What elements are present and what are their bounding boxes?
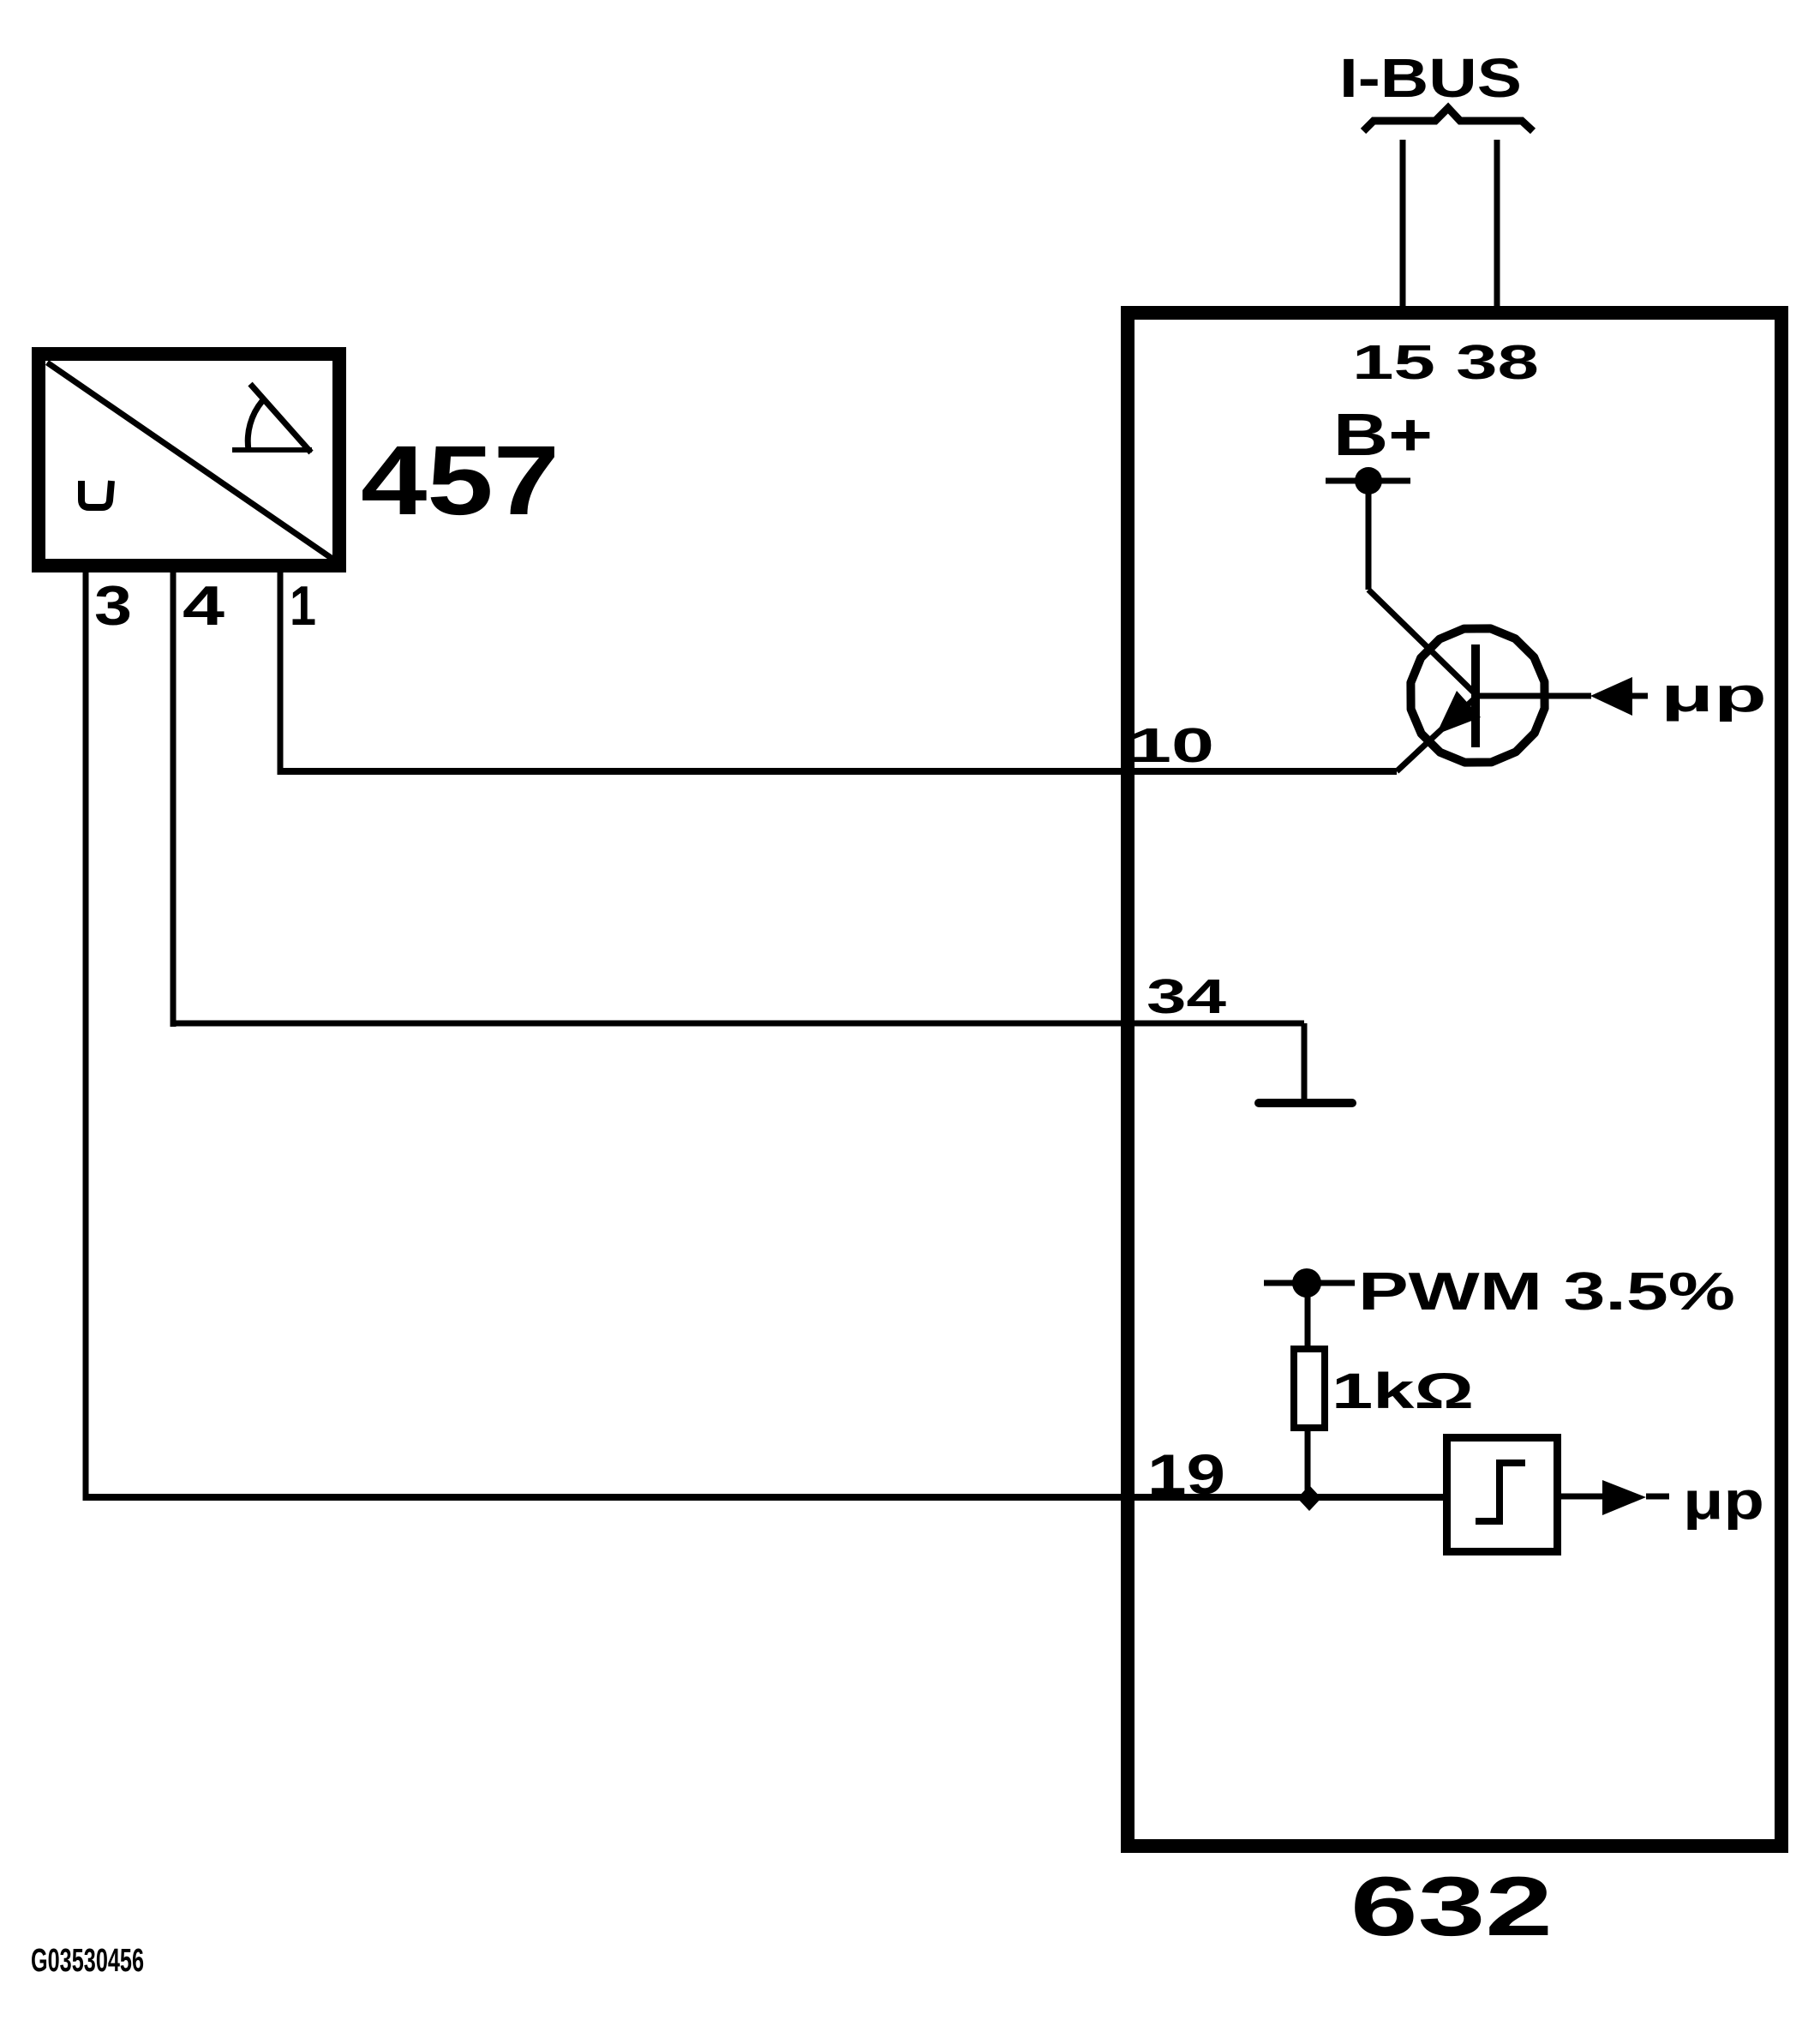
svg-text:1: 1 [290, 574, 316, 637]
svg-text:34: 34 [1146, 969, 1226, 1024]
svg-text:PWM 3.5%: PWM 3.5% [1358, 1262, 1735, 1322]
svg-text:3: 3 [94, 574, 132, 637]
svg-text:457: 457 [361, 426, 560, 536]
svg-text:I-BUS: I-BUS [1339, 47, 1522, 109]
svg-text:1kΩ: 1kΩ [1332, 1364, 1474, 1419]
svg-text:15 38: 15 38 [1352, 335, 1539, 390]
svg-text:μp: μp [1661, 668, 1767, 722]
svg-text:4: 4 [183, 574, 225, 637]
svg-text:19: 19 [1147, 1442, 1225, 1506]
svg-text:10: 10 [1129, 718, 1214, 773]
svg-text:μp: μp [1683, 1472, 1764, 1531]
svg-text:G03530456: G03530456 [31, 1943, 144, 1979]
svg-text:632: 632 [1350, 1859, 1553, 1953]
svg-text:B+: B+ [1333, 401, 1433, 468]
